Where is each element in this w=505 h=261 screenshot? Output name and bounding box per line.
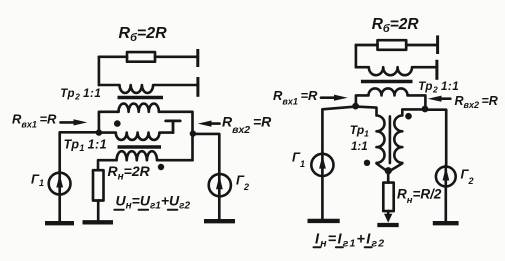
inductor: Тр2 primary winding (left) bbox=[99, 85, 198, 93]
current source Г2 (left) bbox=[209, 174, 231, 196]
wire: Rб loop top right bbox=[155, 55, 198, 58]
ground (under Rн right) bbox=[377, 223, 398, 227]
svg-text:Iн=Iг1+Iг2: Iн=Iг1+Iг2 bbox=[315, 232, 385, 250]
wire: Rб loop left vertical bbox=[98, 57, 101, 85]
terminal T of Тр1 primary bbox=[166, 121, 181, 133]
label Rб = 2R (right) bbox=[372, 16, 420, 35]
ground (under Г2 right) bbox=[433, 221, 459, 225]
label Rвх1 = R (right) bbox=[273, 88, 318, 107]
terminal bar (top, left circuit) bbox=[196, 49, 199, 67]
label Тр2 1:1 bbox=[60, 88, 101, 102]
label Г1 (left) bbox=[31, 172, 44, 189]
svg-text:Г2: Г2 bbox=[461, 167, 474, 187]
polarity dot Тр1 primary (left) bbox=[114, 120, 121, 127]
resistor Rн (left) bbox=[93, 170, 104, 200]
label Rвх2 = R (left) bbox=[222, 114, 272, 137]
equation Uн = Uг1 + Uг2 bbox=[116, 193, 191, 212]
svg-text:Тр1 1:1: Тр1 1:1 bbox=[64, 138, 107, 154]
polarity dot Тр1 right winding top bbox=[405, 113, 412, 120]
terminal bar (top, right circuit) bbox=[436, 35, 439, 54]
arrow Rвх1 (left) bbox=[61, 121, 77, 124]
label Rн = 2R bbox=[108, 163, 151, 183]
svg-text:Г2: Г2 bbox=[236, 173, 249, 193]
underline marks for I symbols bbox=[314, 246, 372, 248]
svg-text:Rвх1 =R: Rвх1 =R bbox=[273, 88, 318, 107]
current source Г1 (right) bbox=[311, 154, 333, 176]
ground (under Г1 left) bbox=[45, 221, 74, 225]
inductor: Тр1 primary winding (left) bbox=[99, 133, 173, 140]
arrow Rвх2 (left) bbox=[209, 122, 220, 125]
inductor: Тр1 right winding (right circuit) bbox=[391, 109, 426, 170]
label Г2 (left) bbox=[236, 173, 249, 193]
svg-text:Rвх1 =R: Rвх1 =R bbox=[12, 112, 57, 130]
ground (under Г2 left) bbox=[204, 219, 235, 223]
polarity dot Тр1 secondary (left) bbox=[158, 164, 164, 170]
inductor: Тр1 left winding (right circuit) bbox=[356, 107, 387, 171]
svg-text:Г1: Г1 bbox=[31, 172, 44, 189]
svg-text:Тр2 1:1: Тр2 1:1 bbox=[60, 88, 101, 102]
svg-text:1:1: 1:1 bbox=[351, 141, 368, 153]
svg-text:Тр2 1:1: Тр2 1:1 bbox=[418, 81, 459, 95]
svg-text:Uн=Uг1+Uг2: Uн=Uг1+Uг2 bbox=[116, 193, 191, 212]
terminal bar (second, right circuit) bbox=[435, 60, 438, 80]
svg-text:Rвх2 =R: Rвх2 =R bbox=[222, 114, 272, 137]
svg-text:Rб=2R: Rб=2R bbox=[119, 25, 168, 44]
node B (right circuit, right) bbox=[422, 106, 429, 113]
arrow Rвх2 (right) bbox=[440, 97, 450, 100]
ground (under Г1 right) bbox=[308, 219, 340, 223]
svg-text:Rн=2R: Rн=2R bbox=[108, 163, 151, 183]
svg-text:Г1: Г1 bbox=[292, 150, 305, 170]
wire: Rб loop left vertical (right circuit) bbox=[355, 45, 358, 67]
arrow down to ground bbox=[387, 211, 390, 214]
transformer core Тр2 (left) bbox=[118, 96, 164, 99]
label Тр1 1:1 bbox=[64, 138, 107, 154]
label Тр1 1:1 (right) bbox=[350, 123, 369, 153]
node: right node bbox=[190, 130, 196, 136]
wire: Rб loop top left bbox=[99, 55, 127, 58]
transformer core Тр1 (left) bbox=[118, 145, 162, 148]
svg-text:Rвх2 =R: Rвх2 =R bbox=[455, 94, 498, 110]
wire: node to Rн (right) bbox=[387, 171, 390, 183]
ground (under Rн left) bbox=[83, 220, 114, 224]
node A (right circuit, left) bbox=[352, 103, 359, 110]
wire: Rн to ground bbox=[97, 201, 100, 221]
underline marks for U symbols bbox=[114, 209, 177, 211]
wire: right node to Г2 bbox=[193, 134, 220, 173]
transformer core Тр1 (right, vertical) bbox=[389, 116, 392, 163]
label Rб = 2R bbox=[119, 25, 168, 44]
wire: node B to Г2 (right circuit) bbox=[425, 110, 446, 166]
node: center bottom (right circuit) bbox=[385, 167, 392, 174]
current source Г2 (right) bbox=[436, 167, 456, 187]
wire: Тр2 secondary left side bbox=[99, 112, 119, 133]
inductor: Тр2 primary winding (right) bbox=[356, 67, 437, 75]
svg-text:Rн=R/2: Rн=R/2 bbox=[397, 187, 442, 207]
current source Г1 (left) bbox=[49, 173, 71, 195]
label Г1 (right) bbox=[292, 150, 305, 170]
label Rн = R/2 bbox=[397, 187, 442, 207]
label Rвх1 = R (left) bbox=[12, 112, 57, 130]
arrow Rвх1 (right) bbox=[321, 96, 336, 99]
wire: Rб loop top (right circuit) bbox=[356, 44, 378, 47]
resistor Rн (right) bbox=[383, 183, 393, 212]
inductor: Тр2 secondary winding (left) bbox=[119, 104, 159, 112]
resistor Rб (right) bbox=[378, 40, 407, 50]
terminal bar (second, left circuit) bbox=[196, 77, 199, 97]
label Тр2 1:1 (right) bbox=[418, 81, 459, 95]
wire: Тр2 secondary right side vertical bbox=[159, 112, 193, 160]
wire: left node to Г1 bbox=[60, 132, 99, 171]
inductor: Тр2 secondary winding (right) bbox=[356, 88, 426, 109]
inductor: Тр1 secondary winding (left) bbox=[98, 151, 193, 170]
label Rвх2 = R (right) bbox=[455, 94, 498, 110]
transformer core Тр2 (right) bbox=[361, 80, 413, 83]
polarity dot Тр1 left winding bottom bbox=[364, 160, 370, 166]
svg-text:Rб=2R: Rб=2R bbox=[372, 16, 420, 35]
node: left input node bbox=[96, 129, 102, 135]
svg-text:Тр1: Тр1 bbox=[350, 123, 369, 139]
resistor Rб (left) bbox=[127, 52, 155, 62]
equation Iн = Iг1 + Iг2 bbox=[315, 232, 385, 250]
wire: node A to Г1 (right circuit) bbox=[322, 107, 355, 153]
label Г2 (right) bbox=[461, 167, 474, 187]
